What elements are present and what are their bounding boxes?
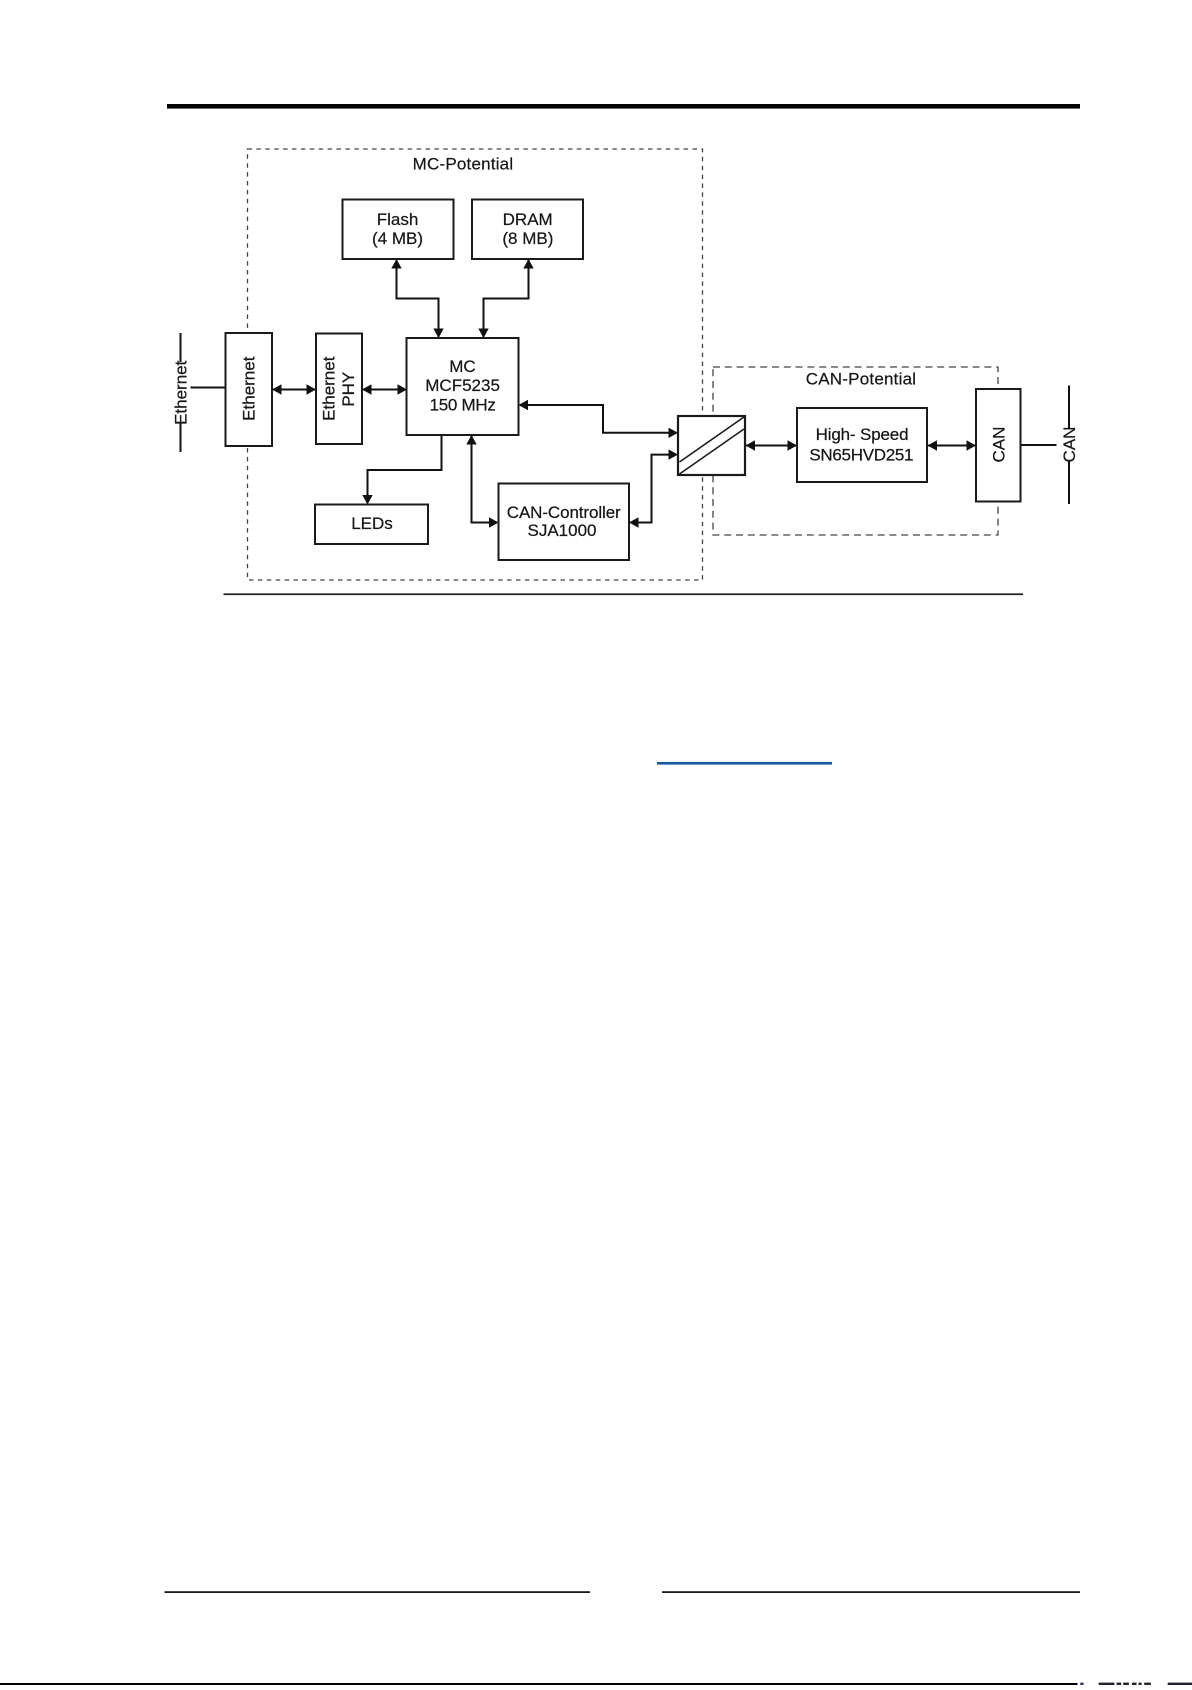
svg-text:MCF5235: MCF5235 bbox=[425, 376, 500, 395]
header rule bbox=[167, 104, 1080, 109]
footer rule right bbox=[662, 1591, 1080, 1593]
block CAN-Controller SJA1000 bbox=[499, 484, 630, 561]
wire Flash to MC bus bbox=[391, 257, 443, 339]
wire MC to CAN-Controller bbox=[466, 435, 498, 528]
wire High-Speed to CAN bbox=[927, 440, 976, 450]
wire Ethernet to Ethernet PHY bbox=[272, 384, 316, 394]
wire DRAM to MC bus bbox=[478, 257, 533, 339]
svg-text:LEDs: LEDs bbox=[351, 514, 393, 533]
svg-text:Ethernet: Ethernet bbox=[320, 356, 339, 421]
block Flash bbox=[343, 200, 454, 260]
block CAN connector bbox=[976, 389, 1021, 502]
svg-text:CAN-Controller: CAN-Controller bbox=[507, 503, 621, 522]
svg-text:150 MHz: 150 MHz bbox=[430, 395, 496, 414]
block LEDs bbox=[315, 505, 428, 545]
block High-Speed SN65HVD251 bbox=[797, 408, 927, 482]
block DRAM bbox=[472, 200, 583, 260]
wire optocoupler to High-Speed bbox=[745, 440, 797, 450]
svg-text:Flash: Flash bbox=[377, 210, 419, 229]
CAN-Potential boundary bbox=[713, 367, 998, 535]
MC-Potential boundary bbox=[248, 149, 703, 580]
hyperlink underline bbox=[657, 762, 832, 765]
node CAN net line bbox=[1060, 386, 1079, 505]
figure bottom rule bbox=[224, 593, 1024, 595]
wire Ethernet PHY to MC bbox=[362, 384, 407, 394]
svg-text:(4 MB): (4 MB) bbox=[372, 229, 423, 248]
svg-text:High- Speed: High- Speed bbox=[816, 425, 909, 444]
svg-text:CAN: CAN bbox=[1060, 427, 1079, 463]
svg-text:PHY: PHY bbox=[339, 372, 358, 407]
wire MC to LEDs bbox=[362, 435, 441, 505]
block Ethernet bbox=[226, 333, 273, 446]
wire CAN box to CAN net bbox=[1021, 444, 1057, 446]
svg-text:SN65HVD251: SN65HVD251 bbox=[809, 446, 913, 465]
block MC MCF5235 bbox=[407, 338, 519, 435]
optocoupler isolation block bbox=[678, 416, 745, 475]
bottom clipped text fragments bbox=[1080, 1683, 1192, 1685]
block Ethernet PHY bbox=[316, 334, 362, 445]
bottom edge bar bbox=[0, 1683, 1078, 1685]
svg-text:SJA1000: SJA1000 bbox=[528, 521, 597, 540]
svg-text:CAN: CAN bbox=[989, 427, 1008, 463]
svg-text:(8 MB): (8 MB) bbox=[502, 229, 553, 248]
svg-text:CAN-Potential: CAN-Potential bbox=[806, 370, 917, 389]
footer rule left bbox=[165, 1591, 591, 1593]
node Ethernet net line bbox=[172, 333, 226, 452]
svg-text:DRAM: DRAM bbox=[503, 210, 553, 229]
wire CAN-Controller to optocoupler bbox=[629, 449, 678, 527]
svg-text:MC: MC bbox=[449, 357, 475, 376]
svg-text:Ethernet: Ethernet bbox=[172, 360, 191, 425]
svg-text:Ethernet: Ethernet bbox=[240, 356, 259, 421]
svg-text:MC-Potential: MC-Potential bbox=[413, 155, 514, 174]
wire MC to optocoupler bbox=[519, 400, 679, 438]
